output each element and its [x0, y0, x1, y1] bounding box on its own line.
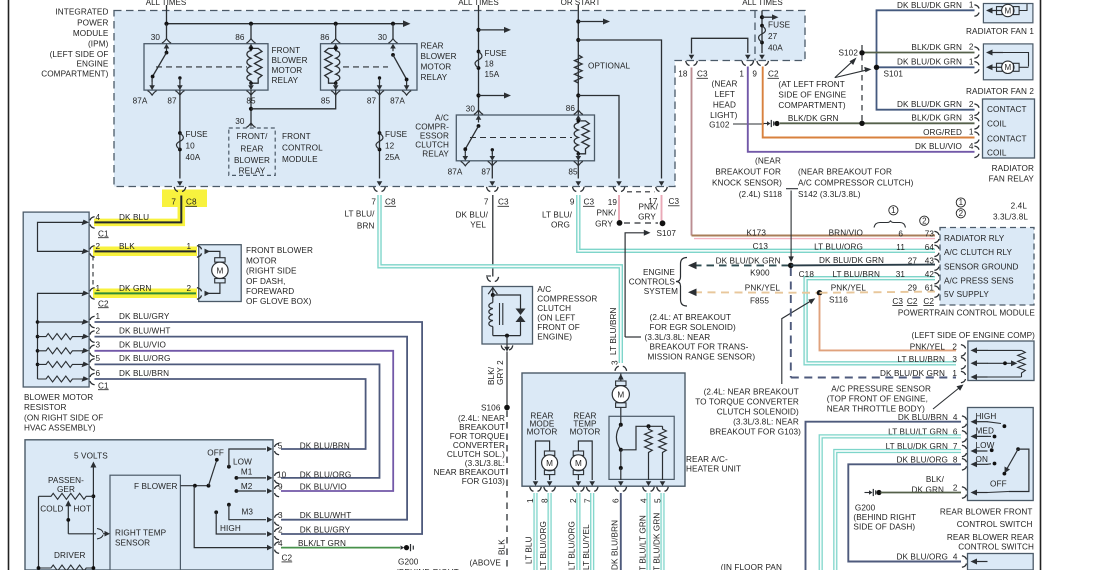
svg-text:86: 86	[566, 104, 576, 113]
svg-text:5: 5	[278, 442, 283, 451]
ground G102	[763, 120, 780, 127]
svg-text:C2: C2	[768, 70, 779, 79]
svg-text:DK BLU/ORG: DK BLU/ORG	[119, 354, 171, 363]
FRONT/REAR BLOWER RELAY dashed box	[229, 128, 275, 175]
ground G200 and wire BLK/DK GRN to switch 2	[865, 489, 882, 496]
svg-text:MODULE: MODULE	[73, 29, 109, 38]
svg-text:BLK/: BLK/	[926, 475, 945, 484]
svg-text:ENGINE: ENGINE	[643, 268, 675, 277]
PCM connector row 6/73	[934, 231, 939, 243]
internal row 1 plain	[38, 321, 87, 323]
rotated wire labels	[525, 513, 662, 570]
svg-text:DK BLU/: DK BLU/	[455, 211, 488, 220]
svg-text:40A: 40A	[768, 44, 783, 53]
svg-text:3: 3	[969, 113, 974, 122]
svg-text:LT BLU/BRN: LT BLU/BRN	[832, 270, 880, 279]
svg-text:7: 7	[171, 198, 176, 207]
blend motor at top	[620, 374, 622, 382]
svg-text:3: 3	[952, 355, 957, 364]
REAR BLOWER FRONT CONTROL SWITCH box	[968, 408, 1034, 501]
wire K900 DK BLU/DK GRN dashed from engine controls	[694, 264, 791, 266]
svg-text:(TOP FRONT OF ENGINE,: (TOP FRONT OF ENGINE,	[827, 395, 928, 404]
svg-text:M: M	[546, 459, 553, 468]
wire K900 solid to PCM	[791, 264, 935, 267]
R2 pin 30	[388, 39, 397, 52]
svg-text:G200: G200	[855, 504, 876, 513]
svg-text:A/C PRESSURE SENSOR: A/C PRESSURE SENSOR	[831, 385, 931, 394]
svg-text:LT BLU/: LT BLU/	[542, 211, 573, 220]
svg-text:DK BLU/GRY: DK BLU/GRY	[119, 312, 170, 321]
svg-text:FRONT BLOWER: FRONT BLOWER	[246, 246, 313, 255]
label AT LEFT FRONT SIDE OF ENGINE COMPARTMENT	[778, 80, 846, 110]
svg-text:HIGH: HIGH	[976, 412, 997, 421]
svg-text:4: 4	[953, 413, 958, 422]
svg-text:RELAY: RELAY	[239, 167, 266, 176]
svg-text:(BEHIND RIGHT: (BEHIND RIGHT	[853, 513, 916, 522]
svg-text:GRY: GRY	[595, 220, 613, 229]
svg-text:FUSE: FUSE	[385, 130, 408, 139]
page border left	[8, 0, 10, 570]
svg-text:4: 4	[96, 213, 101, 222]
svg-text:3.3L/3.8L: 3.3L/3.8L	[993, 213, 1028, 222]
svg-text:19: 19	[608, 198, 618, 207]
R3 pin 85	[574, 153, 583, 166]
label FRONT CONTROL MODULE	[282, 132, 323, 164]
IPM bottom connector 7 C8 (relay R2)	[374, 187, 386, 192]
heater bottom connectors	[530, 487, 542, 492]
clutch transorb diode	[493, 295, 521, 309]
svg-text:COLD: COLD	[40, 505, 63, 514]
svg-text:FAN RELAY: FAN RELAY	[989, 175, 1035, 184]
svg-text:10: 10	[186, 142, 196, 151]
R3 coil	[574, 121, 578, 154]
svg-text:S101: S101	[884, 70, 904, 79]
svg-text:PNK/YEL: PNK/YEL	[745, 283, 781, 292]
switch connectors & wires	[962, 416, 967, 428]
svg-text:ORG: ORG	[551, 221, 570, 230]
svg-text:C3: C3	[697, 70, 708, 79]
R2 pin 87A	[402, 83, 411, 96]
wire branch to connector 19	[578, 96, 619, 179]
svg-text:FRONT/: FRONT/	[236, 132, 268, 141]
R1 pin 87 stub	[178, 76, 181, 79]
svg-text:85: 85	[568, 167, 578, 176]
R1 pin 87A	[148, 83, 157, 96]
svg-text:DK BLU/VIO: DK BLU/VIO	[915, 142, 962, 151]
label S142 NEAR BREAKOUT FOR A/C COMPRESSOR CLUTCH	[786, 188, 798, 190]
svg-text:REAR: REAR	[240, 145, 263, 154]
BLOWER MOTOR RESISTOR box	[23, 212, 89, 387]
wire LT BLU/BRN from connector 7 C8 to rear heater unit	[380, 195, 621, 363]
svg-text:HOT: HOT	[74, 505, 92, 514]
svg-text:(IPM): (IPM)	[88, 39, 109, 48]
switch arm pivot and OFF path	[1016, 447, 1020, 451]
svg-text:M: M	[617, 390, 624, 399]
R3 87 wire down to connector	[491, 161, 493, 179]
svg-text:C2: C2	[98, 299, 109, 308]
svg-text:K173: K173	[746, 228, 766, 237]
label NEAR BREAKOUT FOR KNOCK SENSOR S118	[712, 157, 782, 200]
svg-text:S106: S106	[481, 404, 501, 413]
svg-text:2: 2	[922, 216, 927, 225]
svg-text:4: 4	[278, 539, 283, 548]
svg-text:5V SUPPLY: 5V SUPPLY	[944, 290, 989, 299]
leader arrows to S102 S101	[835, 62, 866, 78]
svg-text:12: 12	[385, 142, 395, 151]
svg-text:DK GRN: DK GRN	[119, 284, 151, 293]
svg-text:YEL: YEL	[470, 221, 486, 230]
wire DK BLU/WHT nested	[95, 337, 408, 520]
svg-text:2: 2	[953, 484, 958, 493]
svg-text:S107: S107	[657, 229, 677, 238]
svg-text:CLUTCH SOLENOID): CLUTCH SOLENOID)	[717, 408, 799, 417]
R1 switch arm	[165, 51, 169, 55]
IPM bottom connector 9 C3	[573, 187, 585, 192]
svg-text:BREAKOUT: BREAKOUT	[459, 423, 505, 432]
svg-text:SIDE OF DASH): SIDE OF DASH)	[853, 523, 915, 532]
svg-text:LEFT: LEFT	[715, 90, 735, 99]
connector 1 C2	[742, 61, 754, 66]
common down to row 4	[194, 486, 268, 548]
svg-text:OPTIONAL: OPTIONAL	[588, 62, 631, 71]
relay R3 A/C COMPRESSOR CLUTCH RELAY box	[456, 115, 594, 161]
svg-text:DK BLU: DK BLU	[119, 213, 149, 222]
wire top bus	[167, 23, 404, 25]
svg-text:MOTOR: MOTOR	[421, 63, 452, 72]
svg-text:6: 6	[96, 369, 101, 378]
svg-text:DK BLU/DK GRN: DK BLU/DK GRN	[819, 256, 884, 265]
svg-text:LIGHT): LIGHT)	[710, 111, 738, 120]
svg-text:30: 30	[235, 117, 245, 126]
fuse F27 40A feed	[761, 11, 763, 54]
svg-text:POWER: POWER	[77, 18, 108, 27]
svg-text:2.4L: 2.4L	[1011, 202, 1028, 211]
R2 internal dashed actuation line	[343, 66, 388, 68]
relay connector 2	[974, 104, 979, 116]
wire DK GRN highlighted	[95, 292, 197, 294]
svg-text:DK BLU/BRN: DK BLU/BRN	[898, 413, 948, 422]
R1 coil	[247, 48, 251, 83]
svg-text:11: 11	[896, 243, 905, 252]
wire BLK/DK GRN from G102	[780, 122, 975, 124]
svg-text:POWERTRAIN CONTROL MODULE: POWERTRAIN CONTROL MODULE	[898, 309, 1036, 318]
svg-text:18: 18	[678, 70, 688, 79]
wire fuse18 feed from top	[478, 5, 480, 115]
relay connector 4	[974, 146, 979, 158]
svg-text:C13: C13	[753, 242, 769, 251]
svg-text:DK BLU/DK GRN: DK BLU/DK GRN	[716, 256, 781, 265]
svg-text:18: 18	[485, 60, 495, 69]
svg-text:43: 43	[925, 257, 935, 266]
F BLOWER wire and switch common	[180, 485, 209, 487]
svg-text:COMPARTMENT): COMPARTMENT)	[41, 70, 108, 79]
svg-text:ON: ON	[976, 455, 988, 464]
svg-text:INTEGRATED: INTEGRATED	[55, 8, 108, 17]
svg-text:F BLOWER: F BLOWER	[134, 482, 178, 491]
wire DK BLU/DK GRN fan1	[877, 10, 975, 109]
svg-text:COMPARTMENT): COMPARTMENT)	[778, 101, 845, 110]
svg-text:SENSOR GROUND: SENSOR GROUND	[944, 263, 1019, 272]
svg-text:A/C COMPRESSOR CLUTCH): A/C COMPRESSOR CLUTCH)	[798, 179, 914, 188]
svg-text:OFF: OFF	[207, 448, 224, 457]
RADIATOR FAN 1 box	[983, 4, 1033, 23]
wire R1-85 to R2-85 and to front/rear blower relay 30	[250, 90, 252, 126]
IPM integrated power module dashed box	[114, 11, 805, 187]
resistor row labels	[96, 312, 171, 391]
svg-text:S102: S102	[838, 49, 858, 58]
svg-text:G102: G102	[709, 121, 730, 130]
svg-text:CONTROL SWITCH: CONTROL SWITCH	[957, 520, 1033, 529]
svg-text:PNK/YEL: PNK/YEL	[910, 342, 946, 351]
svg-text:(LEFT SIDE OF: (LEFT SIDE OF	[50, 50, 109, 59]
wire DK BLU highlighted	[95, 196, 182, 223]
connector 18 C3	[686, 61, 698, 66]
svg-text:27: 27	[768, 32, 778, 41]
label 2.4L NEAR BREAKOUT TO TORQUE CONVERTER	[695, 388, 801, 437]
svg-text:DK BLU/BRN: DK BLU/BRN	[611, 520, 620, 570]
svg-text:LT BLU: LT BLU	[525, 536, 534, 564]
fan1 motor M1 icon	[986, 8, 1003, 14]
svg-text:15A: 15A	[485, 70, 500, 79]
label REAR BLOWER MOTOR RELAY	[421, 42, 457, 83]
svg-text:C8: C8	[186, 198, 197, 207]
svg-text:1: 1	[96, 284, 101, 293]
svg-text:MOTOR: MOTOR	[246, 257, 277, 266]
svg-text:2: 2	[952, 342, 957, 351]
label S106 location	[434, 414, 506, 486]
svg-text:4: 4	[969, 142, 974, 151]
switch arm to OFF	[209, 462, 217, 486]
svg-text:5: 5	[96, 354, 101, 363]
wire drops from bus to relay pins	[166, 24, 168, 39]
svg-text:DK BLU/VIO: DK BLU/VIO	[300, 483, 347, 492]
svg-text:(AT LEFT FRONT: (AT LEFT FRONT	[778, 80, 844, 89]
svg-text:HIGH: HIGH	[220, 524, 241, 533]
clutch coil	[492, 295, 494, 303]
wire U-bridge connectors 18 to 1	[692, 38, 748, 53]
svg-text:FUSE: FUSE	[768, 21, 791, 30]
svg-text:LT BLU/ORG: LT BLU/ORG	[568, 521, 577, 570]
svg-text:SYSTEM: SYSTEM	[644, 287, 678, 296]
svg-text:DK BLU/DK GRN: DK BLU/DK GRN	[897, 1, 962, 10]
IPM bottom connector 17 C3	[656, 187, 668, 192]
svg-text:BLK/DK GRN: BLK/DK GRN	[911, 114, 962, 123]
svg-text:(NEAR BREAKOUT FOR: (NEAR BREAKOUT FOR	[798, 168, 892, 177]
S102 dashed equipotential line	[861, 45, 863, 123]
wire LT BLU/BRN C18 teal PCM to pressure sensor	[806, 278, 956, 363]
svg-text:25A: 25A	[385, 153, 400, 162]
svg-text:FUSE: FUSE	[186, 130, 209, 139]
svg-text:RELAY: RELAY	[422, 150, 449, 159]
resistor internal jumper rows 4-2	[38, 222, 87, 251]
svg-text:87A: 87A	[390, 97, 405, 106]
svg-text:A/C: A/C	[435, 114, 449, 123]
svg-text:C3: C3	[584, 198, 595, 207]
svg-text:CONTROL: CONTROL	[282, 144, 323, 153]
svg-text:DK BLU/BRN: DK BLU/BRN	[119, 369, 169, 378]
svg-text:RADIATOR FAN 2: RADIATOR FAN 2	[966, 87, 1034, 96]
A/C PRESSURE SENSOR box	[968, 341, 1034, 381]
sensor connectors	[961, 345, 966, 357]
splice S102	[859, 50, 864, 55]
wire DK BLU/BRN nested	[95, 379, 366, 449]
rotated pin numbers	[526, 498, 663, 503]
svg-text:BLOWER: BLOWER	[234, 156, 270, 165]
svg-text:LT BLU/BRN: LT BLU/BRN	[609, 307, 618, 355]
svg-text:2: 2	[96, 326, 101, 335]
svg-text:MOTOR: MOTOR	[570, 428, 601, 437]
svg-text:COIL: COIL	[987, 149, 1007, 158]
ground G200 left	[401, 546, 405, 550]
wire DK BLU/BRN to switch HIGH	[806, 422, 962, 570]
svg-text:DK BLU/GRY: DK BLU/GRY	[300, 525, 351, 534]
svg-text:C3: C3	[892, 297, 903, 306]
svg-text:CONVERTER: CONVERTER	[453, 441, 505, 450]
svg-text:2: 2	[187, 284, 192, 293]
leader from S118/S142 text to splice	[790, 191, 792, 258]
svg-text:FOREWARD: FOREWARD	[246, 287, 294, 296]
yellow highlight wires	[94, 196, 181, 222]
svg-text:GRY: GRY	[638, 213, 656, 222]
resistor box connector arrows out	[82, 220, 90, 382]
svg-text:LT BLU/ORG: LT BLU/ORG	[539, 521, 548, 570]
relay connector 1	[974, 132, 979, 144]
fuse 27 sub-box divider	[754, 11, 756, 61]
svg-text:40A: 40A	[186, 153, 201, 162]
wire PNK/YEL S116 down to pressure sensor	[820, 295, 957, 350]
PCM C3 C2 C2 labels	[892, 297, 934, 306]
svg-text:SIDE OF ENGINE: SIDE OF ENGINE	[778, 91, 846, 100]
svg-text:GRY 2: GRY 2	[496, 360, 505, 385]
label FRONT BLOWER MOTOR	[246, 246, 313, 306]
fuse F18 15A	[477, 50, 481, 54]
branch to resistors	[621, 426, 663, 450]
svg-text:64: 64	[925, 243, 935, 252]
svg-text:9: 9	[752, 70, 757, 79]
svg-text:ENGINE: ENGINE	[77, 60, 109, 69]
svg-text:BRN/VIO: BRN/VIO	[829, 228, 863, 237]
svg-text:M: M	[1004, 63, 1011, 72]
svg-text:FOR TORQUE: FOR TORQUE	[450, 432, 506, 441]
svg-text:G200: G200	[398, 558, 419, 567]
svg-text:COMPRESSOR: COMPRESSOR	[537, 295, 597, 304]
svg-text:42: 42	[925, 270, 935, 279]
PCM POWERTRAIN CONTROL MODULE dashed box	[940, 228, 1034, 306]
svg-text:ENGINE): ENGINE)	[537, 333, 572, 342]
svg-text:BLK: BLK	[119, 242, 135, 251]
svg-text:DK BLU/ORG: DK BLU/ORG	[896, 455, 948, 464]
svg-text:M: M	[575, 459, 582, 468]
svg-text:C1: C1	[98, 381, 109, 390]
wire LT BLU/DK GRN to switch LOW	[835, 451, 961, 570]
wire DK BLU/VIO nested	[95, 351, 394, 491]
svg-text:RADIATOR FAN 1: RADIATOR FAN 1	[966, 27, 1034, 36]
svg-text:1: 1	[952, 369, 957, 378]
svg-text:87: 87	[481, 167, 491, 176]
FRONT CONTROL SWITCH big box	[25, 440, 273, 570]
svg-text:REAR BLOWER FRONT: REAR BLOWER FRONT	[940, 508, 1033, 517]
svg-text:(2.4L: AT BREAKOUT: (2.4L: AT BREAKOUT	[650, 313, 732, 322]
RADIATOR FAN 2 box	[983, 44, 1033, 80]
svg-text:HVAC ASSEMBLY): HVAC ASSEMBLY)	[24, 424, 96, 433]
rear mode motor	[527, 412, 601, 437]
R1 pin 85	[246, 83, 255, 96]
svg-text:DK BLU/WHT: DK BLU/WHT	[119, 326, 171, 335]
svg-text:(2.4L: NEAR BREAKOUT: (2.4L: NEAR BREAKOUT	[704, 388, 799, 397]
svg-text:6: 6	[612, 498, 621, 503]
svg-text:REAR BLOWER REAR: REAR BLOWER REAR	[947, 533, 1034, 542]
svg-text:PASSEN-: PASSEN-	[48, 476, 84, 485]
svg-text:DK BLU/DK GRN: DK BLU/DK GRN	[897, 100, 962, 109]
rear temp motor	[578, 441, 592, 480]
potentiometer PASSENGER	[48, 476, 84, 494]
label A/C COMPRESSOR CLUTCH	[537, 285, 597, 342]
R3 switch arm	[477, 124, 481, 128]
svg-text:S116: S116	[829, 296, 848, 305]
R3 internal dashed actuation line	[470, 137, 572, 139]
svg-text:BREAKOUT FOR: BREAKOUT FOR	[715, 168, 781, 177]
fuse F12 25A wire from R2-87	[379, 90, 381, 178]
svg-text:31: 31	[896, 270, 906, 279]
heater unit top connector	[615, 366, 627, 371]
svg-text:K900: K900	[750, 269, 770, 278]
svg-text:85: 85	[321, 97, 331, 106]
label REAR BLOWER FRONT CONTROL SWITCH	[940, 508, 1034, 552]
svg-text:1: 1	[187, 242, 192, 251]
svg-text:(2.4L: NEAR: (2.4L: NEAR	[458, 414, 505, 423]
heater bottom wires	[536, 493, 663, 570]
wire BLK/DK GRN fan2 to S102	[862, 52, 975, 54]
svg-text:M1: M1	[241, 468, 253, 477]
svg-text:M: M	[216, 266, 223, 275]
svg-text:2: 2	[959, 209, 964, 218]
RIGHT TEMP SENSOR box	[110, 475, 180, 570]
svg-text:3: 3	[96, 341, 101, 350]
svg-text:COMPR-: COMPR-	[415, 123, 449, 132]
svg-text:1: 1	[96, 312, 101, 321]
wire PNK/YEL F855 dashed from engine controls	[694, 291, 820, 294]
relay connector 3	[974, 118, 979, 130]
svg-text:FUSE: FUSE	[485, 49, 508, 58]
resistor elements rows	[38, 334, 87, 340]
svg-text:87A: 87A	[133, 97, 148, 106]
svg-text:OR START: OR START	[561, 0, 601, 7]
splice on K900	[788, 263, 794, 269]
svg-text:BRN: BRN	[357, 222, 375, 231]
svg-text:C1: C1	[98, 229, 109, 238]
svg-text:1: 1	[969, 1, 974, 10]
fuse F10 40A wire from R1-87	[179, 90, 181, 178]
brace ENGINE CONTROLS SYSTEM	[676, 258, 687, 307]
fan2 motor M2 icon	[986, 50, 1003, 56]
svg-text:9: 9	[570, 198, 575, 207]
fuse 10 symbol	[178, 131, 182, 135]
heater inner switch/resistor box	[609, 416, 674, 479]
svg-text:M3: M3	[242, 508, 254, 517]
switch pin labels	[277, 442, 351, 563]
REAR A/C-HEATER UNIT box	[522, 373, 685, 486]
svg-text:BLOWER: BLOWER	[272, 56, 308, 65]
R3 pin 87A	[461, 153, 470, 166]
svg-text:2: 2	[969, 43, 974, 52]
A/C COMPRESSOR CLUTCH box	[482, 287, 533, 345]
svg-text:CONTROL SWITCH: CONTROL SWITCH	[958, 543, 1034, 552]
svg-text:2: 2	[969, 100, 974, 109]
svg-text:C2: C2	[282, 554, 293, 563]
R3 pin 86	[574, 110, 583, 123]
R1 pin 30	[162, 39, 171, 52]
R3 85 wire down to connector	[577, 161, 579, 179]
